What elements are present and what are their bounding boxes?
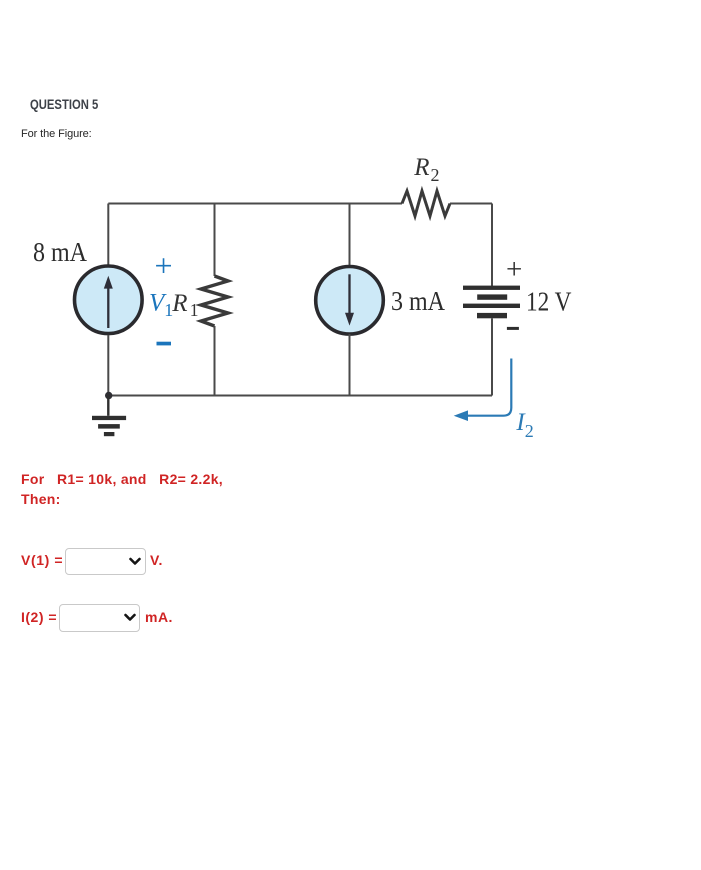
given values text — [21, 469, 223, 509]
resistor R2 — [402, 191, 450, 216]
circuit schematic — [0, 0, 701, 460]
battery 12V plates — [463, 286, 520, 319]
wire top horizontal left of R2 — [108, 203, 402, 205]
label minus V1 — [157, 342, 172, 346]
svg-text:R: R — [413, 154, 429, 181]
resistor R1 — [201, 276, 228, 326]
wire middle vertical bottom — [349, 334, 351, 396]
wire R1 branch top — [214, 204, 216, 277]
svg-text:8 mA: 8 mA — [33, 237, 87, 267]
I(2) row label — [21, 609, 57, 625]
node ground junction — [105, 392, 112, 399]
current arrow I2 — [454, 359, 512, 422]
current source I3 circle — [316, 267, 384, 335]
wire top horizontal right of R2 — [450, 203, 492, 205]
prompt text — [21, 128, 92, 140]
wire right vertical bottom — [491, 318, 493, 395]
svg-text:12 V: 12 V — [526, 287, 572, 317]
current source I3 arrow — [345, 274, 354, 325]
I(2) dropdown — [59, 604, 140, 632]
svg-text:+: + — [155, 248, 173, 284]
current source I1 arrow — [104, 276, 113, 328]
V(1) dropdown — [65, 548, 146, 575]
wire right vertical top — [491, 204, 493, 287]
I(2) unit — [145, 609, 173, 625]
wire left vertical top — [107, 204, 109, 267]
current source I1 circle — [75, 266, 143, 334]
svg-text:3 mA: 3 mA — [391, 286, 445, 316]
svg-text:1: 1 — [190, 300, 199, 320]
wire bottom horizontal — [108, 395, 492, 397]
ground — [92, 396, 126, 437]
wire middle vertical top — [349, 204, 351, 268]
svg-text:2: 2 — [431, 165, 440, 185]
label minus battery — [507, 327, 519, 330]
svg-text:+: + — [506, 254, 522, 286]
svg-text:R: R — [171, 290, 187, 317]
wire left vertical bottom — [107, 335, 109, 396]
V(1) row label — [21, 552, 63, 568]
question header — [30, 97, 98, 112]
V(1) unit — [150, 552, 163, 568]
svg-text:2: 2 — [525, 421, 534, 441]
wire R1 branch bottom — [214, 326, 216, 396]
